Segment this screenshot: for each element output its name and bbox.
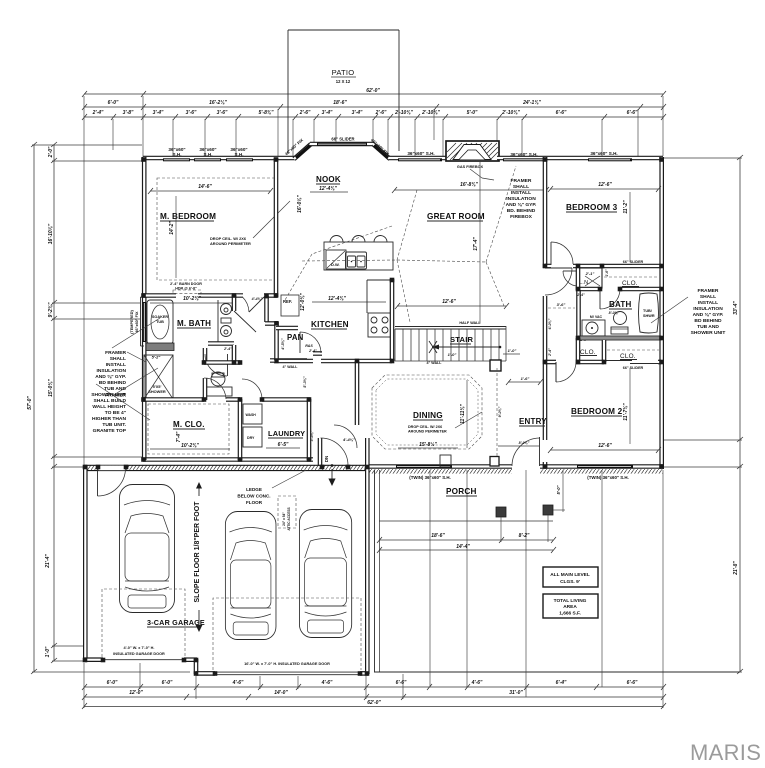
svg-text:1'-0": 1'-0": [508, 348, 517, 353]
porch roof line: [379, 520, 553, 522]
window: great room right of firebox: [503, 152, 545, 161]
ledge below conc floor note: [237, 470, 306, 505]
svg-text:GREAT ROOM: GREAT ROOM: [427, 212, 485, 221]
svg-text:CLO.: CLO.: [620, 353, 636, 360]
porch post dim 5'-0: [553, 470, 565, 512]
svg-text:12'-4⅜": 12'-4⅜": [328, 296, 346, 302]
svg-text:2'-10⅜": 2'-10⅜": [394, 110, 413, 116]
svg-text:ATTIC ACCESS: ATTIC ACCESS: [287, 507, 291, 530]
washer / dryer: [243, 404, 262, 447]
room label DINING: [398, 380, 482, 448]
svg-text:16'-0" W. x 7'-0" H. INSULATED: 16'-0" W. x 7'-0" H. INSULATED GARAGE DO…: [244, 662, 330, 666]
svg-text:16'-0⅞": 16'-0⅞": [297, 195, 303, 213]
svg-text:21'-4": 21'-4": [45, 554, 51, 569]
svg-text:M. BATH: M. BATH: [177, 319, 211, 328]
M bath vanity with two sinks: [208, 300, 234, 351]
svg-text:62'-0": 62'-0": [366, 88, 380, 94]
svg-text:3'-4": 3'-4": [352, 110, 363, 116]
svg-text:14'-6": 14'-6": [198, 184, 212, 190]
exterior right wall: [659, 157, 664, 469]
svg-text:2'-1": 2'-1": [585, 271, 595, 276]
svg-text:3'-8": 3'-8": [123, 110, 134, 116]
svg-text:66" SLIDER: 66" SLIDER: [623, 260, 644, 264]
svg-text:BATH: BATH: [609, 300, 631, 309]
svg-text:4'-5⅜": 4'-5⅜": [281, 338, 285, 351]
svg-text:DRY: DRY: [247, 436, 255, 440]
svg-text:5'-8⅜": 5'-8⅜": [259, 110, 275, 116]
left dimension line outer 57'-0": [27, 142, 190, 674]
kitchen island counter: [302, 236, 397, 271]
svg-text:INSTALL: INSTALL: [511, 190, 531, 196]
svg-text:6'-0⅜": 6'-0⅜": [548, 318, 552, 329]
wall: kitchen/laundry bottom region (y=360): [270, 358, 307, 363]
svg-text:36"x60" S.H.: 36"x60" S.H.: [590, 151, 617, 156]
counter edge lines kitchen: [366, 280, 368, 313]
svg-text:12'-6": 12'-6": [598, 182, 612, 188]
svg-text:AROUND PERIMETER: AROUND PERIMETER: [408, 430, 447, 434]
entry cased opening posts: [490, 360, 501, 371]
M bedroom drop ceiling dashed: [157, 178, 290, 280]
svg-text:4'-6": 4'-6": [321, 680, 333, 686]
wall: hall bottom segment: [204, 360, 240, 365]
svg-text:12'-0⅜": 12'-0⅜": [300, 293, 306, 311]
exterior top wall left: [143, 156, 295, 161]
room label NOOK: [297, 175, 348, 213]
svg-text:LEDGE: LEDGE: [246, 487, 262, 492]
dimension row A: overall 62'-0": [82, 88, 666, 106]
DN to garage: [324, 456, 336, 486]
svg-text:2'-6": 2'-6": [375, 110, 387, 116]
svg-text:12'-0": 12'-0": [129, 690, 143, 696]
svg-text:AND ⅜" GYP.: AND ⅜" GYP.: [506, 202, 537, 208]
svg-text:62'-0": 62'-0": [367, 700, 381, 706]
room label BEDROOM 3: [548, 182, 661, 262]
dining drop ceiling octagon dashed: [372, 375, 482, 449]
svg-text:6'-4": 6'-4": [556, 680, 567, 686]
svg-text:2'-6": 2'-6": [299, 110, 311, 116]
svg-text:AREA: AREA: [563, 604, 577, 610]
range with burners: [368, 313, 392, 337]
svg-text:17'-4": 17'-4": [473, 237, 479, 251]
window: great room left of firebox: [398, 151, 442, 161]
door: bedroom 2: [556, 362, 576, 382]
attic access dashed: [278, 496, 296, 531]
svg-text:3'-6": 3'-6": [186, 110, 197, 116]
room label ENTRY: [519, 417, 547, 426]
bottom dimension row 2: [82, 690, 666, 700]
svg-text:2'-4": 2'-4": [92, 110, 104, 116]
garage bottom step: [194, 659, 199, 674]
porch dim 14'-4: [377, 544, 556, 553]
svg-text:FRAMER: FRAMER: [698, 288, 719, 294]
toilet M bath: [206, 372, 232, 396]
svg-text:14'-0": 14'-0": [274, 690, 288, 696]
window: M bedroom S.H. x3: [163, 147, 253, 161]
svg-text:1,666 S.F.: 1,666 S.F.: [559, 611, 581, 617]
exterior top wall right: [497, 156, 663, 161]
window: nook 66" slider in bay: [284, 137, 390, 157]
svg-text:2'-4": 2'-4": [576, 293, 585, 297]
room label M. CLO.: [150, 420, 230, 449]
svg-text:6'-5": 6'-5": [278, 442, 289, 448]
svg-text:BELOW CONC.: BELOW CONC.: [237, 494, 270, 499]
svg-text:4'-6": 4'-6": [471, 680, 483, 686]
svg-text:KITCHEN: KITCHEN: [311, 320, 349, 329]
svg-text:1'-0": 1'-0": [448, 352, 457, 357]
svg-text:BEDROOM 2: BEDROOM 2: [571, 407, 623, 416]
svg-text:6'-6": 6'-6": [627, 110, 638, 116]
patio outline: [288, 30, 399, 153]
bottom dimension row 1: [82, 680, 666, 690]
svg-text:31'-0": 31'-0": [509, 690, 523, 696]
svg-text:TUB UNIT.: TUB UNIT.: [102, 422, 126, 428]
wall: hall right / laundry left (x=240): [238, 399, 243, 460]
svg-text:MARIS: MARIS: [690, 740, 761, 765]
M clo shelf dashed: [148, 404, 229, 454]
svg-text:33'-4": 33'-4": [733, 301, 739, 315]
garage bottom wall left bay: [84, 657, 103, 662]
svg-text:16'-10⅞": 16'-10⅞": [48, 223, 54, 244]
svg-text:6'-0": 6'-0": [108, 100, 119, 106]
svg-text:INSTALL: INSTALL: [698, 300, 718, 306]
svg-text:SLOPE FLOOR 1/8"PER FOOT: SLOPE FLOOR 1/8"PER FOOT: [194, 501, 201, 603]
dim 4'-4 near hall: [310, 430, 355, 442]
svg-text:R&S: R&S: [305, 344, 313, 348]
svg-text:PATIO: PATIO: [332, 68, 355, 77]
svg-text:5'-2": 5'-2": [152, 355, 161, 360]
closets above bedroom 2: [578, 338, 659, 362]
svg-text:TOTAL LIVING: TOTAL LIVING: [554, 598, 587, 604]
svg-text:2'-4": 2'-4": [548, 348, 552, 357]
svg-text:FRAMER: FRAMER: [511, 178, 532, 184]
svg-text:(TEMPERED): (TEMPERED): [130, 309, 134, 333]
pantry: walls: [276, 328, 322, 388]
svg-text:CLO.: CLO.: [580, 349, 596, 356]
wall: kitchen right / great room left (x=392): [390, 279, 395, 362]
svg-text:INSULATION: INSULATION: [96, 368, 126, 374]
svg-text:24'-1⅜": 24'-1⅜": [522, 100, 541, 106]
door: bath: [599, 289, 601, 309]
exterior bottom wall (main): [366, 464, 512, 469]
svg-text:4'-4⅜": 4'-4⅜": [251, 297, 263, 301]
svg-text:2'-4" BARN DOOR: 2'-4" BARN DOOR: [170, 282, 202, 286]
svg-text:4'-4⅜": 4'-4⅜": [342, 437, 355, 442]
svg-text:2'-0": 2'-0": [48, 146, 54, 158]
svg-text:CLO.: CLO.: [622, 280, 638, 287]
svg-text:AND ⅜" GYP.: AND ⅜" GYP.: [95, 374, 126, 380]
svg-text:SHOWER UNIT: SHOWER UNIT: [691, 330, 726, 336]
room label BATH: [609, 300, 632, 315]
wall: bedroom 2 top (y=362): [545, 360, 556, 365]
barn door dashed + note: [150, 282, 232, 303]
linen closet L.N.: [578, 268, 602, 288]
svg-text:HDR @ 6'-8": HDR @ 6'-8": [175, 287, 197, 291]
svg-text:11'-7⅜": 11'-7⅜": [623, 403, 629, 421]
bottom extension lines: [84, 470, 663, 708]
svg-text:12 X 12: 12 X 12: [336, 79, 351, 84]
svg-text:S.H.: S.H.: [235, 152, 244, 157]
wall: M bath right (x=234): [232, 295, 237, 311]
soaker tub: [147, 300, 173, 344]
svg-text:9'-2⅜": 9'-2⅜": [48, 302, 54, 318]
svg-text:2'-10⅜": 2'-10⅜": [501, 110, 520, 116]
svg-text:6'-6": 6'-6": [627, 680, 638, 686]
hall door arcs to M bath area: [227, 354, 229, 376]
door: bedroom 3: [551, 242, 573, 264]
door: garage service door: [97, 468, 99, 496]
room label GREAT ROOM: [392, 162, 549, 323]
room label KITCHEN: [300, 293, 386, 329]
wall: hall/kitchen divider (x=276-280 vertical): [264, 296, 269, 322]
svg-text:M. CLO.: M. CLO.: [173, 420, 205, 429]
svg-text:12'-6": 12'-6": [442, 299, 456, 305]
svg-text:4'-0" W. x 7'-0" H.: 4'-0" W. x 7'-0" H.: [124, 646, 155, 650]
svg-text:GAS FIREBOX: GAS FIREBOX: [457, 165, 484, 169]
svg-text:TUB AND: TUB AND: [697, 324, 719, 330]
wall: hall/bath top (y=289): [578, 287, 600, 292]
svg-text:11'-11⅜": 11'-11⅜": [460, 403, 466, 423]
svg-text:16'-2⅛": 16'-2⅛": [209, 100, 227, 106]
exterior left wall: [142, 157, 147, 460]
svg-text:16'-8⅜": 16'-8⅜": [460, 182, 478, 188]
svg-text:DROP CEIL. W/ 2X6: DROP CEIL. W/ 2X6: [408, 425, 442, 429]
svg-text:TUB/: TUB/: [643, 309, 653, 313]
svg-text:GRANITE TOP: GRANITE TOP: [93, 428, 127, 434]
svg-text:BD BEHIND: BD BEHIND: [694, 318, 722, 324]
window: left wall fixed at tub: [143, 302, 146, 342]
svg-text:M. BEDROOM: M. BEDROOM: [160, 212, 216, 221]
svg-text:STAIR: STAIR: [450, 335, 474, 344]
svg-text:SHWR: SHWR: [643, 314, 655, 318]
svg-text:3'-6": 3'-6": [557, 302, 566, 307]
room label BEDROOM 2: [548, 368, 661, 453]
svg-text:L.N.: L.N.: [579, 280, 590, 286]
leader lines from left note to tub/shower: [112, 318, 160, 348]
tub/shower right: [639, 293, 659, 333]
garage right wall: [365, 438, 370, 674]
REF box: [281, 295, 299, 316]
svg-text:66" SLIDER: 66" SLIDER: [331, 137, 354, 142]
svg-text:NOOK: NOOK: [316, 175, 341, 184]
svg-text:14'-4": 14'-4": [456, 544, 470, 550]
svg-text:6'-6": 6'-6": [396, 680, 407, 686]
svg-text:4" WALL: 4" WALL: [283, 365, 299, 369]
wall: toilet room left (x=204): [203, 348, 208, 362]
svg-text:SOAKER: SOAKER: [152, 315, 169, 319]
bath toilet: [611, 312, 628, 335]
svg-text:21'-8": 21'-8": [733, 561, 739, 576]
garage door dashed outline left: [102, 589, 185, 657]
note: framer shall install (left): [91, 350, 127, 434]
closet bedroom 3: [604, 260, 659, 287]
svg-text:12'-6": 12'-6": [598, 443, 612, 449]
svg-text:46"x60" FIX: 46"x60" FIX: [135, 311, 139, 333]
svg-text:5'-3⅜": 5'-3⅜": [303, 376, 307, 388]
svg-text:8'-0⅜": 8'-0⅜": [519, 441, 530, 445]
svg-text:PAN: PAN: [287, 333, 304, 342]
label 3-CAR GARAGE: [147, 618, 205, 627]
laundry walls: [262, 399, 310, 460]
note: framer shall install (right): [691, 288, 726, 336]
wall: kitchen bottom (y=361): [274, 359, 313, 364]
svg-text:INSULATION: INSULATION: [693, 306, 723, 312]
half wall: [395, 321, 506, 329]
garage bottom wall right bay: [196, 671, 215, 676]
svg-text:FRAMER: FRAMER: [105, 350, 126, 356]
svg-text:INSULATION: INSULATION: [506, 196, 536, 202]
garage left wall with service door opening: [83, 465, 88, 661]
svg-text:14'-2": 14'-2": [169, 221, 175, 235]
svg-text:5'-0": 5'-0": [556, 484, 561, 494]
svg-text:REF.: REF.: [283, 299, 292, 304]
dim 12'-6 above stair: [395, 299, 509, 309]
wall: dining left / mud hall (x=357): [355, 361, 360, 425]
svg-text:ALL MAIN LEVEL: ALL MAIN LEVEL: [550, 572, 590, 578]
svg-text:DN: DN: [324, 456, 329, 462]
note box: all main level clgs: [543, 567, 598, 587]
svg-text:3'-6": 3'-6": [217, 110, 228, 116]
svg-text:INSTALL: INSTALL: [106, 362, 126, 368]
svg-text:S.H.: S.H.: [173, 152, 182, 157]
svg-text:FLOOR: FLOOR: [246, 500, 263, 505]
svg-text:BEDROOM 3: BEDROOM 3: [566, 203, 618, 212]
wall joint patches: [83, 157, 664, 676]
room label STAIR: [450, 335, 474, 344]
dimension row B: [82, 100, 666, 110]
svg-text:6'-6": 6'-6": [556, 110, 567, 116]
stair treads: [395, 326, 506, 361]
exterior top wall center: [389, 156, 448, 161]
svg-text:4" WALL: 4" WALL: [427, 361, 443, 365]
svg-text:AROUND PERIMETER: AROUND PERIMETER: [210, 241, 251, 246]
svg-text:9'-0⅜": 9'-0⅜": [498, 406, 502, 417]
dimension row C: [82, 110, 666, 120]
svg-text:CLGS. 9': CLGS. 9': [560, 579, 580, 585]
svg-text:3'-5⅜": 3'-5⅜": [310, 430, 314, 441]
porch post 1: [496, 507, 506, 517]
garage top wall: [84, 465, 369, 471]
exterior bottom wall under laundry: [143, 457, 313, 462]
car 3: [299, 510, 351, 638]
svg-text:4'-6": 4'-6": [232, 680, 244, 686]
svg-text:PORCH: PORCH: [446, 487, 477, 496]
svg-text:57'-0": 57'-0": [27, 396, 33, 410]
svg-text:SHOWER: SHOWER: [148, 389, 166, 394]
svg-text:1'-0": 1'-0": [45, 646, 51, 657]
svg-text:HALF WALL: HALF WALL: [459, 321, 481, 325]
svg-text:11'-2": 11'-2": [623, 200, 629, 214]
front door: [498, 437, 540, 466]
svg-text:8'-2": 8'-2": [519, 533, 530, 539]
svg-text:24" x 54": 24" x 54": [282, 512, 286, 526]
svg-text:FIREBOX: FIREBOX: [510, 214, 532, 220]
svg-text:WALL HEIGHT: WALL HEIGHT: [92, 404, 126, 410]
door: from garage hall to dining area: [334, 425, 357, 448]
door: garage entry door arc: [318, 438, 323, 466]
small post at dining/porch wall: [440, 455, 451, 467]
svg-text:S.H.: S.H.: [204, 152, 213, 157]
gas firebox: [446, 141, 499, 180]
svg-text:10'-2⅜": 10'-2⅜": [181, 443, 199, 449]
svg-text:ENTRY: ENTRY: [519, 417, 547, 426]
right dimension line: [664, 155, 743, 674]
svg-text:TO BE 4": TO BE 4": [105, 410, 126, 416]
wall: M clo top (y=399): [143, 397, 204, 402]
door: hall entrance from great room: [545, 267, 572, 269]
garage door label left: [113, 646, 165, 656]
wall: bedroom 3 bottom (y=266): [545, 264, 551, 269]
svg-text:3'-4": 3'-4": [153, 110, 164, 116]
svg-text:AND ⅜" GYP.: AND ⅜" GYP.: [693, 312, 724, 318]
svg-text:18'-6": 18'-6": [333, 100, 347, 106]
stair down arrow: [427, 341, 502, 365]
hall dims: [548, 293, 585, 357]
svg-text:(TWIN) 36"x60" S.H.: (TWIN) 36"x60" S.H.: [587, 475, 629, 480]
svg-text:18'-6": 18'-6": [431, 533, 445, 539]
car 2: [225, 512, 276, 640]
bath vanity + M VAC: [579, 290, 606, 342]
svg-text:INSULATED GARAGE DOOR: INSULATED GARAGE DOOR: [113, 652, 165, 656]
wall: great room / bedrooms divider (x=545): [543, 157, 548, 268]
svg-text:1'-6": 1'-6": [521, 376, 530, 381]
svg-text:BD BEHIND: BD BEHIND: [99, 380, 127, 386]
svg-text:1'-6": 1'-6": [605, 269, 609, 277]
svg-text:LAUNDRY: LAUNDRY: [268, 429, 305, 438]
svg-text:SHALL: SHALL: [513, 184, 529, 190]
svg-text:36"x60" S.H.: 36"x60" S.H.: [510, 152, 537, 157]
svg-text:6'-0": 6'-0": [107, 680, 118, 686]
window: bedroom 3 top: [588, 151, 632, 161]
window: bedroom 2 bottom twin: [577, 465, 633, 480]
svg-text:WASH: WASH: [246, 413, 257, 417]
svg-text:2'-10⅜": 2'-10⅜": [421, 110, 440, 116]
car 1: [120, 485, 175, 613]
great room ceiling break dashed lines: [285, 166, 516, 322]
room label M. BEDROOM: [148, 184, 273, 278]
door: laundry: [242, 379, 262, 399]
svg-text:12'-4⅜": 12'-4⅜": [319, 186, 337, 192]
wall: bath bottom (y=338): [578, 336, 661, 341]
wall: M bedroom bottom (y=295) with barn door opening: [143, 293, 176, 298]
shower 5x3: [144, 343, 174, 399]
room label LAUNDRY: [266, 429, 305, 448]
window: dining bottom twin: [396, 465, 452, 480]
porch post 2: [543, 505, 553, 515]
garage door dashed outline right: [213, 598, 361, 670]
framer note at firebox: [506, 178, 537, 220]
svg-text:6'-0": 6'-0": [162, 680, 173, 686]
left dimension line inner segments: [45, 142, 142, 663]
svg-text:66" SLIDER: 66" SLIDER: [623, 366, 644, 370]
leader line from right note to tub: [651, 297, 688, 323]
svg-text:D.W.: D.W.: [331, 262, 340, 267]
dimension extension lines down to wall: [84, 96, 663, 467]
svg-text:2'-4": 2'-4": [223, 347, 232, 351]
svg-text:36"x60" S.H.: 36"x60" S.H.: [407, 151, 434, 156]
bay window wall (nook): [294, 144, 311, 159]
note box: total living area: [543, 594, 598, 618]
wall: M bedroom right (x=276): [274, 158, 279, 297]
svg-text:10'-2⅜": 10'-2⅜": [183, 296, 201, 302]
svg-text:3'-4": 3'-4": [322, 110, 333, 116]
svg-text:DINING: DINING: [413, 411, 443, 420]
svg-text:15'-8½": 15'-8½": [419, 441, 437, 448]
svg-text:SHALL: SHALL: [700, 294, 716, 300]
svg-text:5'-0": 5'-0": [467, 110, 478, 116]
porch extension verticals: [429, 470, 431, 687]
door: hall to M bath: [234, 311, 256, 332]
porch dims 18'-6 / 8'-2: [377, 515, 556, 543]
